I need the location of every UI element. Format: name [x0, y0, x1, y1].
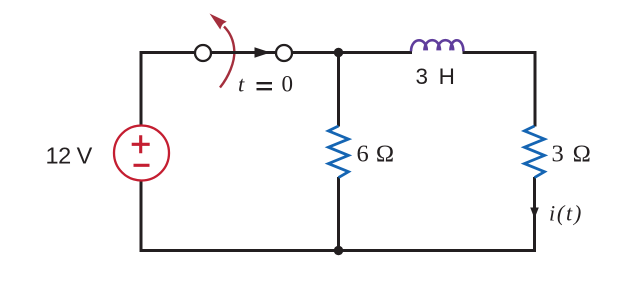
switch closing action arrow (red, t=0): [210, 14, 235, 88]
wire top-left with corner down to source: [141, 53, 412, 126]
voltage source V1 12V (red circle): [114, 126, 169, 181]
resistor R2 3-ohm (blue zigzag): [524, 126, 544, 178]
node junction bottom: [334, 246, 343, 255]
switch contact right: [276, 45, 292, 61]
switch arm arrowhead: [255, 47, 271, 57]
switch contact left: [195, 45, 211, 61]
current direction arrowhead i(t): [530, 208, 539, 219]
wire top-right with corner down to 3-ohm resistor: [463, 53, 536, 127]
wire middle branch upper: [337, 53, 340, 127]
svg-text:t: t: [238, 72, 245, 97]
svg-text:12 V: 12 V: [46, 143, 93, 169]
wire middle branch lower: [337, 177, 340, 251]
resistor R1 6-ohm (blue zigzag): [328, 126, 348, 178]
voltage source plus sign: [132, 135, 150, 153]
svg-text:6 Ω: 6 Ω: [357, 141, 395, 168]
svg-text:3 Ω: 3 Ω: [552, 141, 593, 168]
inductor L 3H (purple coil): [411, 40, 463, 51]
svg-text:0: 0: [282, 72, 294, 97]
svg-text:i(t): i(t): [549, 201, 583, 226]
voltage source minus sign: [134, 164, 150, 167]
node junction top: [334, 48, 343, 57]
wire bottom loop: right branch lower, bottom wire, left branch lower: [141, 177, 535, 251]
svg-text:3 H: 3 H: [416, 64, 458, 89]
